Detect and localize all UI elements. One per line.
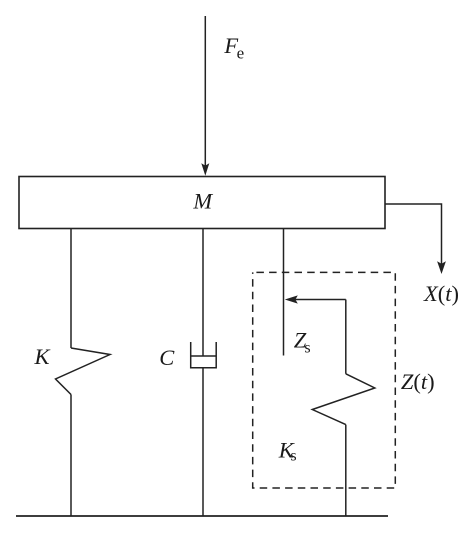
wire arrow tail to spring Ks <box>345 300 347 374</box>
wire mass to node Zs <box>283 229 285 356</box>
svg-text:K: K <box>34 344 51 369</box>
svg-text:X(t): X(t) <box>423 281 459 306</box>
svg-text:M: M <box>192 189 213 214</box>
wire spring Ks to ground <box>345 425 347 516</box>
wire output from mass right <box>385 204 442 264</box>
svg-text:Z(t): Z(t) <box>401 369 435 394</box>
arrow Zs <box>285 295 346 303</box>
ground line <box>16 515 388 517</box>
damper C <box>191 342 217 368</box>
spring K <box>56 348 111 395</box>
svg-text:C: C <box>159 345 175 370</box>
output arrow X(t) <box>437 261 446 274</box>
mass M <box>19 177 385 229</box>
wire mass to damper C <box>202 229 204 357</box>
force arrow Fe <box>201 16 209 176</box>
dashed box Z(t) subsystem <box>253 272 396 488</box>
wire spring K to ground <box>70 395 72 517</box>
wire mass to spring K <box>70 229 72 349</box>
spring Ks <box>312 374 375 425</box>
svg-text:Ks: Ks <box>278 438 297 465</box>
wire damper C to ground <box>202 368 204 516</box>
